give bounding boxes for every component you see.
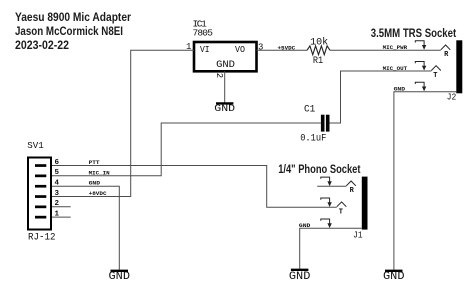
SV1 pin 6 pad bbox=[35, 164, 46, 167]
SV1 pin 5 pad bbox=[35, 175, 46, 178]
IC1 pin 2 number (rotated) bbox=[214, 73, 224, 78]
net label MIC_IN bbox=[89, 169, 110, 176]
C1 name label bbox=[304, 104, 315, 115]
SV1 pin 1 pad bbox=[35, 216, 46, 219]
ground symbol bottom right bbox=[383, 271, 405, 283]
ground symbol under IC1 bbox=[214, 103, 235, 115]
svg-text:SV1: SV1 bbox=[27, 140, 44, 151]
svg-text:GND: GND bbox=[299, 222, 311, 229]
SV1 pin 2 pad bbox=[35, 206, 46, 209]
svg-text:J2: J2 bbox=[447, 92, 457, 103]
net GND: wire J1 sleeve to ground bbox=[300, 228, 362, 269]
svg-text:GND: GND bbox=[214, 103, 235, 115]
ground symbol bottom middle bbox=[289, 270, 311, 283]
svg-text:GND: GND bbox=[289, 271, 311, 283]
svg-text:6: 6 bbox=[55, 159, 60, 167]
J2 tip plug arrow bbox=[415, 62, 426, 71]
net MIC_PWR: wire R1 to J2 ring contact bbox=[330, 49, 441, 51]
net label PTT bbox=[89, 159, 101, 166]
SV1 pin 3 pad bbox=[35, 195, 46, 198]
J2 tip contact chevron T bbox=[431, 66, 441, 81]
svg-text:2: 2 bbox=[214, 73, 224, 78]
svg-text:+8VDC: +8VDC bbox=[89, 190, 108, 197]
IC1 pin 3 number bbox=[258, 42, 263, 52]
J1 ring plug arrow bbox=[321, 177, 332, 186]
svg-text:R1: R1 bbox=[313, 56, 323, 67]
3.5MM TRS Socket heading bbox=[371, 26, 456, 40]
ground symbol bottom left bbox=[109, 271, 131, 283]
capacitor C1 bbox=[321, 115, 330, 132]
R1 name label bbox=[313, 56, 323, 67]
J2 sleeve plug arrow bbox=[415, 82, 426, 91]
svg-text:5: 5 bbox=[55, 169, 60, 177]
net label GND at J2 bbox=[394, 86, 406, 93]
svg-text:T: T bbox=[433, 72, 437, 80]
J1 ring pin stub wire bbox=[317, 185, 346, 187]
svg-text:C1: C1 bbox=[304, 104, 315, 115]
SV1 pin 4 number bbox=[55, 180, 60, 188]
svg-text:T: T bbox=[339, 208, 343, 216]
SV1 pin 2 stub wire bbox=[52, 206, 71, 208]
J1 ring contact chevron R bbox=[346, 181, 356, 195]
IC1 name label bbox=[193, 18, 208, 29]
svg-text:GND: GND bbox=[89, 180, 101, 187]
svg-text:MIC_IN: MIC_IN bbox=[89, 169, 110, 176]
net label MIC_PWR bbox=[383, 44, 408, 51]
svg-text:GND: GND bbox=[216, 59, 235, 71]
SV1 name label bbox=[27, 140, 44, 151]
svg-text:1/4" Phono Socket: 1/4" Phono Socket bbox=[278, 162, 360, 176]
net label MIC_OUT bbox=[383, 65, 408, 72]
IC1 pin 1 number bbox=[186, 42, 191, 52]
net +8VDC: wire SV1 pin3 to IC1 VI bbox=[52, 50, 194, 196]
svg-text:VO: VO bbox=[235, 44, 245, 55]
net label GND bbox=[89, 180, 101, 187]
SV1 pin 1 number bbox=[55, 210, 60, 218]
voltage regulator U IC1 box bbox=[194, 42, 257, 71]
J2 name label bbox=[447, 92, 457, 103]
connector J1 body bar bbox=[362, 177, 368, 230]
svg-text:2023-02-22: 2023-02-22 bbox=[15, 40, 69, 52]
svg-text:GND: GND bbox=[383, 271, 405, 283]
SV1 pin 4 pad bbox=[35, 185, 46, 188]
connector SV1 box bbox=[28, 158, 51, 230]
svg-text:7805: 7805 bbox=[193, 27, 214, 38]
SV1 pin 1 stub wire bbox=[52, 216, 71, 218]
R1 value label 10k bbox=[310, 36, 328, 48]
net MIC_OUT: wire C1 to J2 tip contact bbox=[330, 71, 432, 123]
net label GND at J1 bbox=[299, 222, 311, 229]
svg-text:MIC_OUT: MIC_OUT bbox=[383, 65, 408, 72]
svg-text:Jason McCormick N8EI: Jason McCormick N8EI bbox=[15, 26, 123, 38]
svg-text:J1: J1 bbox=[353, 230, 363, 241]
svg-text:RJ-12: RJ-12 bbox=[28, 233, 56, 244]
connector J2 body bar bbox=[456, 40, 462, 93]
svg-text:MIC_PWR: MIC_PWR bbox=[383, 44, 408, 51]
net label +8VDC bbox=[89, 190, 108, 197]
net +5VDC: wire IC1 VO to R1 bbox=[257, 49, 308, 51]
IC1 value label 7805 bbox=[193, 27, 214, 38]
svg-text:3: 3 bbox=[55, 190, 60, 198]
J2 ring plug arrow bbox=[415, 41, 426, 50]
J1 name label bbox=[353, 230, 363, 241]
svg-text:R: R bbox=[444, 51, 449, 59]
SV1 pin 5 number bbox=[55, 169, 60, 177]
svg-text:PTT: PTT bbox=[89, 159, 101, 166]
net MIC_IN: wire SV1 pin5 to C1 bbox=[52, 123, 321, 176]
J1 sleeve plug arrow bbox=[321, 219, 332, 228]
svg-text:Yaesu 8900 Mic Adapter: Yaesu 8900 Mic Adapter bbox=[15, 12, 131, 24]
J1 tip plug arrow bbox=[321, 198, 332, 207]
wire IC1 pin2 to ground bbox=[224, 71, 226, 102]
SV1 pin 6 number bbox=[55, 159, 60, 167]
net PTT: wire SV1 pin6 to J1 tip bbox=[52, 166, 337, 208]
J1 tip contact chevron T bbox=[337, 202, 347, 217]
svg-text:0.1uF: 0.1uF bbox=[300, 133, 326, 144]
net GND: wire SV1 pin4 to ground bbox=[52, 186, 119, 270]
1/4" Phono Socket heading bbox=[278, 162, 360, 176]
net GND: wire J2 sleeve to ground bbox=[394, 92, 456, 270]
SV1 pin 3 number bbox=[55, 190, 60, 198]
C1 value label 0.1uF bbox=[300, 133, 326, 144]
net label +5VDC bbox=[278, 44, 296, 51]
svg-text:3.5MM TRS Socket: 3.5MM TRS Socket bbox=[371, 26, 456, 40]
resistor R1 zigzag bbox=[307, 46, 330, 55]
SV1 pin 2 number bbox=[55, 200, 60, 208]
svg-text:VI: VI bbox=[200, 44, 210, 55]
svg-text:10k: 10k bbox=[310, 36, 328, 48]
svg-text:4: 4 bbox=[55, 180, 60, 188]
title text block bbox=[15, 12, 131, 52]
svg-text:GND: GND bbox=[394, 86, 406, 93]
J2 ring contact chevron R bbox=[441, 45, 451, 59]
SV1 value label RJ-12 bbox=[28, 233, 56, 244]
svg-text:R: R bbox=[350, 187, 355, 195]
svg-text:+5VDC: +5VDC bbox=[278, 44, 296, 51]
svg-text:GND: GND bbox=[109, 271, 131, 283]
